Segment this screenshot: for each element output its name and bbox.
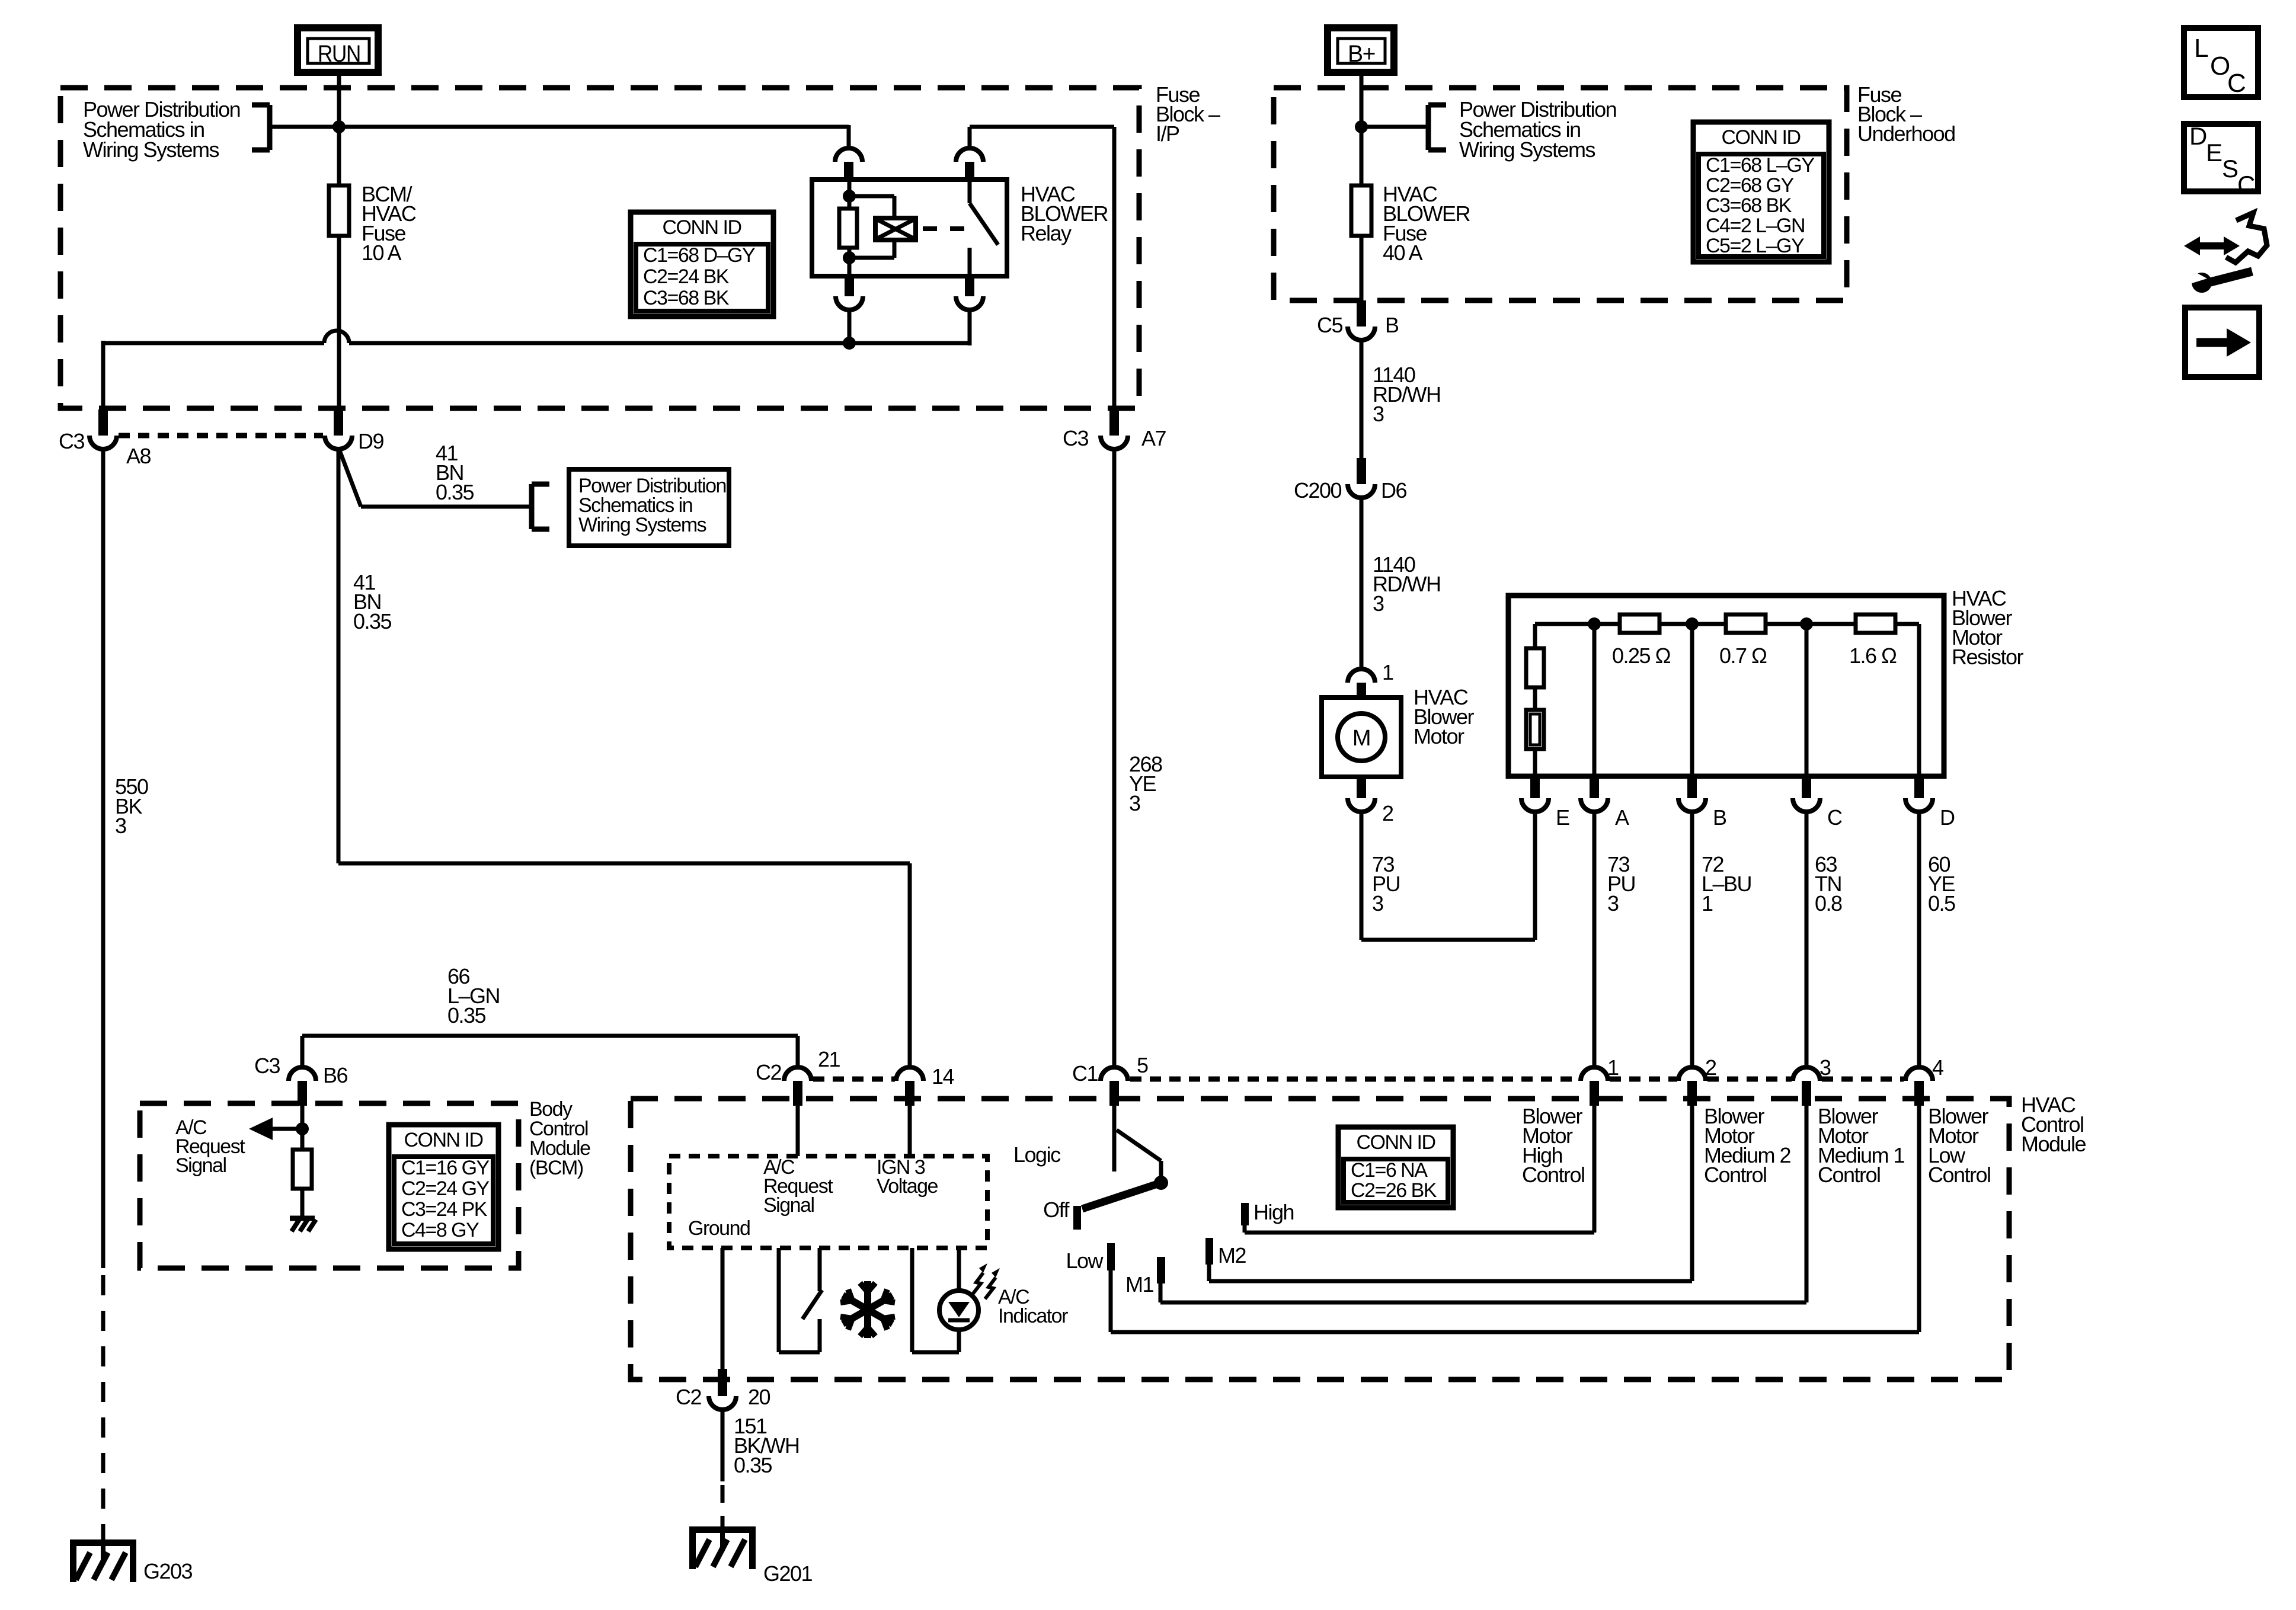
table CONN ID fuse block I/P — [631, 212, 773, 316]
ground BCM internal — [290, 1218, 316, 1231]
wire pin21 into logic — [796, 1106, 800, 1156]
wire B+ bus to bracket — [1361, 125, 1428, 129]
wire branch D — [1917, 624, 1921, 776]
svg-text:0.8: 0.8 — [1815, 891, 1842, 916]
label 1140 RD/WH 3 (upper) — [1373, 363, 1440, 426]
label A/C Indicator — [998, 1286, 1068, 1327]
box power distribution schematics — [569, 469, 729, 546]
relay coil branch wires — [848, 196, 894, 258]
svg-text:C2: C2 — [676, 1385, 701, 1409]
svg-text:A8: A8 — [126, 444, 151, 468]
svg-text:A: A — [1615, 805, 1629, 830]
svg-text:Wiring Systems: Wiring Systems — [578, 514, 706, 536]
svg-text:21: 21 — [818, 1047, 840, 1071]
connector pin 2 — [1678, 1055, 1716, 1106]
connector relay pin switch-out — [956, 276, 983, 310]
label A/C Request Signal (BCM) — [175, 1116, 245, 1177]
wire High to pin1 — [1245, 1106, 1594, 1233]
svg-text:0.35: 0.35 — [353, 609, 392, 633]
svg-text:S: S — [2222, 155, 2238, 183]
svg-text:C4=2 L–GN: C4=2 L–GN — [1706, 215, 1805, 237]
label 550 BK 3 — [115, 774, 148, 838]
svg-text:3: 3 — [1607, 891, 1619, 916]
svg-text:C2=68 GY: C2=68 GY — [1706, 174, 1794, 197]
resistor 0.7 ohm — [1719, 614, 1767, 668]
svg-text:1: 1 — [1702, 891, 1713, 916]
svg-text:Underhood: Underhood — [1857, 121, 1955, 146]
svg-text:3: 3 — [1819, 1055, 1831, 1080]
box BCM dashed — [140, 1103, 519, 1268]
wire B+ down to fuse — [1360, 70, 1364, 185]
label power distribution schematics (left) — [83, 97, 240, 162]
svg-text:Ground: Ground — [688, 1217, 750, 1240]
label Fuse Block - Underhood — [1857, 82, 1955, 146]
off-page bracket (power distribution, right) — [1428, 105, 1446, 150]
switch A/C request — [779, 1248, 822, 1352]
connector resistor pin C — [1793, 776, 1842, 830]
node switch pivot — [1154, 1176, 1168, 1190]
label A/C Request Signal (logic) — [763, 1156, 833, 1217]
svg-text:C4=8 GY: C4=8 GY — [401, 1219, 479, 1241]
label 41 BN 0.35 (lower) — [353, 570, 392, 633]
svg-text:0.5: 0.5 — [1928, 891, 1955, 916]
label HVAC BLOWER Relay — [1021, 182, 1108, 245]
node resistor bus C — [1800, 617, 1813, 630]
label 60 YE 0.5 — [1928, 852, 1955, 916]
ground G203 — [70, 1539, 193, 1583]
table CONN ID HVAC module — [1338, 1127, 1453, 1208]
connector relay pin coil-gnd — [836, 276, 863, 310]
svg-text:CONN ID: CONN ID — [1356, 1131, 1435, 1154]
svg-text:CONN ID: CONN ID — [404, 1129, 482, 1151]
label 268 YE 3 — [1129, 752, 1162, 815]
svg-text:0.7 Ω: 0.7 Ω — [1719, 644, 1767, 668]
label Fuse Block - I/P — [1156, 82, 1220, 146]
connector pin 4 — [1905, 1055, 1943, 1106]
svg-text:0.25 Ω: 0.25 Ω — [1612, 644, 1671, 668]
svg-text:B6: B6 — [323, 1063, 348, 1087]
svg-text:L: L — [2194, 34, 2208, 63]
svg-text:C: C — [2227, 69, 2246, 98]
off-page bracket (power distribution, left) — [252, 105, 270, 150]
svg-text:G203: G203 — [143, 1559, 193, 1583]
svg-text:C3: C3 — [1063, 426, 1088, 450]
svg-text:E: E — [1556, 805, 1569, 830]
svg-text:B+: B+ — [1348, 41, 1375, 67]
relay actuator dashed link — [923, 226, 965, 231]
relay switch contact lower — [968, 248, 972, 276]
LED A/C indicator — [939, 1291, 978, 1330]
dotted strip BCM connector C3 — [119, 433, 323, 438]
svg-text:High: High — [1253, 1200, 1294, 1224]
power symbol B+ — [1328, 28, 1394, 72]
svg-text:C3: C3 — [254, 1054, 280, 1078]
wire 72 L-BU B to pin2 — [1690, 811, 1694, 1067]
connector C3 D9 — [325, 409, 383, 453]
label 66 L-GN 0.35 — [447, 964, 500, 1028]
off-page bracket (power distribution box) — [532, 484, 549, 529]
node resistor bus B — [1686, 617, 1699, 630]
wire ignition bus to relay coil — [270, 125, 849, 149]
svg-text:M1: M1 — [1125, 1272, 1153, 1297]
wire fuse to D9 — [337, 236, 341, 411]
connector motor pin 1 — [1348, 660, 1393, 699]
svg-text:Signal: Signal — [175, 1154, 226, 1177]
svg-text:Indicator: Indicator — [998, 1305, 1068, 1327]
node relay coil bottom — [843, 251, 856, 264]
terminal M2 — [1205, 1238, 1246, 1267]
svg-text:1.6 Ω: 1.6 Ω — [1849, 644, 1897, 668]
connector relay pin switch-common — [956, 148, 983, 181]
label 151 BK/WH 0.35 — [734, 1414, 800, 1477]
svg-text:40 A: 40 A — [1383, 241, 1423, 265]
svg-text:C3=24 PK: C3=24 PK — [401, 1198, 488, 1221]
svg-text:Relay: Relay — [1021, 221, 1072, 245]
wire branch C — [1805, 624, 1809, 776]
svg-text:B: B — [1713, 805, 1726, 830]
icon next-page arrow box — [2185, 308, 2259, 377]
label 41 BN 0.35 (upper) — [436, 441, 474, 504]
svg-text:C1=6 NA: C1=6 NA — [1351, 1159, 1428, 1182]
svg-text:Wiring Systems: Wiring Systems — [1459, 137, 1595, 162]
LED arrows — [973, 1263, 1000, 1299]
svg-text:0.35: 0.35 — [734, 1453, 772, 1477]
svg-text:1: 1 — [1607, 1055, 1619, 1080]
label HVAC BLOWER Fuse 40 A — [1383, 182, 1470, 265]
wire 73 PU motor to E — [1361, 811, 1535, 940]
svg-text:Control: Control — [1522, 1163, 1585, 1187]
wire 1140 RD/WH upper — [1360, 340, 1364, 460]
node A/C request junction — [296, 1122, 309, 1135]
svg-text:20: 20 — [748, 1385, 770, 1409]
svg-text:C2=24 BK: C2=24 BK — [643, 265, 730, 288]
dotted connector strip module — [813, 1077, 1904, 1082]
wire 63 TN C to pin3 — [1805, 811, 1809, 1067]
svg-text:Control: Control — [1818, 1163, 1881, 1187]
label power distribution schematics (right) — [1459, 97, 1616, 162]
svg-text:2: 2 — [1382, 801, 1393, 825]
svg-text:0.35: 0.35 — [447, 1003, 486, 1028]
power symbol RUN — [298, 28, 378, 72]
fuse block I/P dashed box — [60, 88, 1139, 408]
wire 73 PU A to pin1 — [1593, 811, 1597, 1067]
connector pin 3 — [1793, 1055, 1831, 1106]
label 72 L-BU 1 — [1702, 852, 1751, 916]
svg-text:C2=26 BK: C2=26 BK — [1351, 1179, 1437, 1202]
svg-text:C3: C3 — [59, 429, 84, 453]
resistor block outline — [1508, 596, 1944, 776]
wire 151 BK/WH dashed — [721, 1485, 725, 1526]
box Logic dashed — [669, 1156, 987, 1248]
wire BCM resistor to ground — [300, 1189, 305, 1217]
label HVAC Blower Motor Resistor — [1952, 586, 2024, 669]
snowflake A/C symbol — [840, 1281, 895, 1338]
resistor 0.25 ohm — [1612, 614, 1671, 668]
svg-text:D: D — [2189, 122, 2207, 150]
wire Low to pin4 — [1111, 1106, 1919, 1332]
resistor BCM pull — [293, 1150, 312, 1189]
svg-text:C3=68 BK: C3=68 BK — [643, 287, 730, 309]
svg-text:D9: D9 — [358, 429, 383, 453]
table CONN ID fuse block underhood — [1693, 122, 1829, 262]
table CONN ID BCM — [389, 1125, 498, 1249]
wire switch common to A7 bus — [970, 127, 1114, 411]
box HVAC control module dashed — [631, 1099, 2009, 1379]
label 1140 RD/WH 3 (lower) — [1373, 552, 1440, 616]
relay switch blade — [970, 203, 998, 245]
wire relay coil pin — [848, 180, 852, 209]
svg-text:Wiring Systems: Wiring Systems — [83, 137, 219, 162]
svg-text:I/P: I/P — [1156, 121, 1179, 146]
svg-text:2: 2 — [1705, 1055, 1716, 1080]
label Blower Motor High Control — [1522, 1104, 1585, 1187]
label Blower Motor Low Control — [1928, 1104, 1991, 1187]
label HVAC Blower Motor — [1414, 685, 1475, 748]
connector pin 1 — [1581, 1055, 1619, 1106]
wire B6 internal — [300, 1106, 305, 1150]
wire 41 BN to pin 14 — [338, 863, 910, 1067]
connector C2 21 — [756, 1047, 840, 1106]
fuse block underhood dashed box — [1274, 88, 1847, 300]
svg-text:E: E — [2206, 139, 2222, 167]
svg-text:C: C — [2237, 171, 2255, 199]
svg-text:C5=2 L–GY: C5=2 L–GY — [1706, 235, 1804, 257]
node RUN bus junction — [332, 120, 346, 133]
wire logic ground — [721, 1248, 725, 1375]
svg-text:C2: C2 — [756, 1060, 781, 1084]
A/C request arrow — [249, 1118, 303, 1140]
connector resistor pin D — [1905, 776, 1955, 830]
svg-text:G201: G201 — [763, 1561, 813, 1586]
svg-text:RUN: RUN — [318, 41, 360, 67]
wire 41 BN down from D9 — [337, 447, 341, 863]
wire M1 to pin3 — [1160, 1106, 1806, 1302]
wire relay switch-out down — [968, 309, 972, 345]
svg-text:0.35: 0.35 — [436, 480, 474, 504]
connector motor pin 2 — [1348, 777, 1393, 825]
connector C1 5 — [1072, 1053, 1148, 1106]
resistor 1.6 ohm — [1849, 614, 1897, 668]
svg-text:M2: M2 — [1218, 1243, 1246, 1267]
node relay coil ground junction — [843, 337, 856, 350]
svg-text:Resistor: Resistor — [1952, 645, 2024, 669]
wire C1-5 into switch — [1112, 1106, 1117, 1172]
svg-text:14: 14 — [932, 1064, 954, 1089]
wire 60 YE D to pin4 — [1917, 811, 1921, 1067]
switch blower blade to Off — [1082, 1183, 1161, 1209]
connector C3 A8 — [59, 409, 151, 468]
label 63 TN 0.8 — [1815, 852, 1842, 916]
terminal Off — [1043, 1198, 1081, 1230]
svg-text:Signal: Signal — [763, 1194, 814, 1217]
relay coil (X box) — [875, 218, 916, 240]
connector C200 D6 — [1294, 458, 1407, 502]
svg-text:D6: D6 — [1381, 478, 1406, 502]
svg-text:Motor: Motor — [1414, 724, 1464, 748]
svg-text:C5: C5 — [1317, 313, 1342, 337]
wire fuse 40A to C5 — [1360, 236, 1364, 302]
svg-text:CONN ID: CONN ID — [662, 216, 741, 239]
svg-text:D: D — [1940, 805, 1955, 830]
svg-text:1: 1 — [1382, 660, 1393, 684]
label Blower Motor Medium 2 Control — [1704, 1104, 1791, 1187]
svg-text:Control: Control — [1704, 1163, 1767, 1187]
wire pin14 into logic — [908, 1106, 912, 1156]
svg-text:C: C — [1827, 805, 1842, 830]
wire 151 BK/WH solid — [721, 1409, 725, 1481]
label HVAC Control Module — [2021, 1093, 2086, 1156]
terminal M1 — [1125, 1257, 1165, 1297]
LED branch wires — [912, 1248, 959, 1352]
svg-text:3: 3 — [1373, 591, 1384, 616]
wire M2 to pin2 — [1209, 1106, 1692, 1281]
connector C2 20 — [676, 1369, 770, 1410]
wire hop over fuse wire — [324, 331, 349, 343]
wire RUN down to fuse — [337, 70, 341, 185]
svg-text:C1=68 D–GY: C1=68 D–GY — [643, 244, 755, 267]
svg-text:3: 3 — [1373, 402, 1384, 426]
svg-text:C3=68 BK: C3=68 BK — [1706, 194, 1792, 217]
svg-text:C2=24 GY: C2=24 GY — [401, 1177, 490, 1200]
wire relay resistor bottom — [848, 248, 852, 276]
icon wrench and arrow — [2184, 213, 2267, 293]
fuse BCM/HVAC 10A — [329, 185, 349, 236]
connector relay pin coil-hot — [835, 148, 862, 181]
connector C3 B6 — [254, 1054, 348, 1106]
wire relay coil-gnd down — [848, 309, 852, 345]
svg-text:(BCM): (BCM) — [529, 1157, 583, 1179]
label Ground — [688, 1217, 750, 1240]
connector resistor pin A — [1581, 776, 1629, 830]
resistor relay internal — [839, 209, 857, 248]
svg-text:Off: Off — [1043, 1198, 1070, 1222]
icon LOC box — [2184, 28, 2258, 98]
svg-text:3: 3 — [115, 814, 126, 838]
terminal Low — [1066, 1243, 1115, 1273]
wire branch B — [1690, 624, 1694, 776]
svg-text:5: 5 — [1137, 1053, 1148, 1077]
svg-text:Logic: Logic — [1013, 1142, 1061, 1167]
svg-text:C1=16 GY: C1=16 GY — [401, 1157, 490, 1179]
label BCM/HVAC Fuse 10 A — [362, 182, 416, 265]
svg-text:C1: C1 — [1072, 1061, 1098, 1086]
node B+ bus junction — [1355, 120, 1368, 133]
label Logic — [1013, 1142, 1061, 1167]
svg-text:M: M — [1352, 726, 1370, 751]
svg-text:3: 3 — [1372, 891, 1383, 916]
svg-text:4: 4 — [1932, 1055, 1943, 1080]
wire 550 BK solid — [101, 449, 105, 1268]
wire 41 BN D9 branch diagonal — [338, 447, 532, 507]
svg-text:Low: Low — [1066, 1249, 1104, 1273]
ground G201 — [689, 1526, 813, 1586]
label Blower Motor Medium 1 Control — [1818, 1104, 1905, 1187]
wire 550 BK dashed to G203 — [101, 1275, 105, 1539]
label IGN 3 Voltage — [877, 1156, 938, 1198]
motor M1 HVAC blower motor — [1322, 697, 1401, 777]
connector C3 A7 — [1063, 409, 1166, 450]
switch blower blade linkage — [1117, 1130, 1161, 1183]
label 73 PU 3 (motor) — [1372, 852, 1400, 916]
wire branch E with thermal limiter — [1526, 624, 1544, 776]
svg-text:CONN ID: CONN ID — [1721, 126, 1800, 149]
svg-text:10 A: 10 A — [362, 241, 402, 265]
svg-text:B: B — [1385, 313, 1399, 337]
fuse HVAC BLOWER 40A — [1351, 185, 1371, 236]
wire ground bus horizontal — [103, 341, 971, 411]
connector resistor pin B — [1678, 776, 1726, 830]
node resistor bus A — [1588, 617, 1601, 630]
svg-text:A7: A7 — [1141, 426, 1166, 450]
node relay coil top — [843, 190, 856, 203]
wire branch A — [1593, 624, 1597, 776]
label Body Control Module BCM — [529, 1098, 590, 1179]
svg-text:Module: Module — [2021, 1132, 2086, 1156]
svg-text:Control: Control — [1928, 1163, 1991, 1187]
svg-text:C200: C200 — [1294, 478, 1342, 502]
svg-text:Voltage: Voltage — [877, 1175, 938, 1198]
connector C5 B — [1317, 300, 1399, 340]
label 73 PU 3 (A) — [1607, 852, 1635, 916]
relay HVAC BLOWER outline — [812, 180, 1007, 276]
icon DESC box — [2184, 122, 2258, 199]
svg-text:3: 3 — [1129, 791, 1140, 815]
svg-text:C1=68 L–GY: C1=68 L–GY — [1706, 154, 1814, 177]
wire 268 YE A7 to C1-5 — [1112, 447, 1117, 1067]
relay switch contact upper — [968, 181, 972, 203]
terminal High — [1241, 1200, 1294, 1225]
connector 14 — [896, 1064, 954, 1106]
connector resistor pin E — [1521, 776, 1569, 830]
wire 66 L-GN — [302, 1036, 798, 1067]
wire 1140 RD/WH lower — [1360, 498, 1364, 670]
wire resistor bus — [1535, 622, 1919, 626]
